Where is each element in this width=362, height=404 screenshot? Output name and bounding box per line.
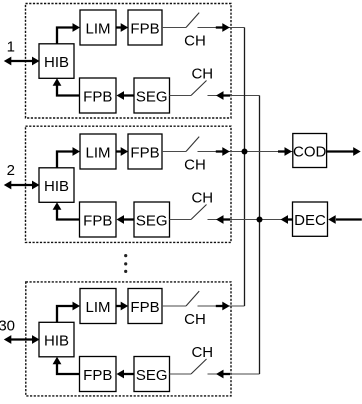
svg-text:HIB: HIB <box>44 178 69 195</box>
limiter LIM (unit 1) <box>80 10 116 45</box>
filter FPB transmit (unit 1) <box>128 10 162 45</box>
wire HIB to LIM <box>57 23 80 44</box>
arrow SEG to FPB receive <box>117 370 135 379</box>
output line COD to system <box>327 147 361 156</box>
svg-text:FPB: FPB <box>83 367 112 384</box>
bidirectional line port 1 to HIB <box>4 57 40 66</box>
switch CH receive (unit 2) <box>191 205 207 220</box>
svg-text:HIB: HIB <box>44 333 69 350</box>
wire SEG to switch CH (receive) <box>170 95 192 97</box>
filter FPB receive (unit 30) <box>80 357 117 392</box>
svg-text:FPB: FPB <box>130 21 159 38</box>
svg-text:SEG: SEG <box>136 367 168 384</box>
switch CH receive (unit 30) <box>191 359 207 374</box>
switch CH transmit (unit 2) <box>186 137 199 152</box>
switch CH transmit (unit 1) <box>186 13 199 28</box>
segment SEG (unit 1) <box>134 78 170 113</box>
wire SEG to switch CH (receive) <box>170 373 192 375</box>
wire switch to trunk (transmit out) <box>198 23 245 32</box>
segment SEG (unit 2) <box>134 202 170 237</box>
input line system to DEC <box>328 215 362 224</box>
svg-text:FPB: FPB <box>83 213 112 230</box>
hybrid HIB (unit 30) <box>39 322 74 357</box>
svg-text:HIB: HIB <box>44 54 69 71</box>
arrow LIM to FPB <box>116 23 128 32</box>
hybrid HIB (unit 2) <box>39 168 74 203</box>
svg-text:DEC: DEC <box>294 212 326 229</box>
svg-text:2: 2 <box>7 162 15 179</box>
svg-text:LIM: LIM <box>85 145 110 162</box>
svg-text:1: 1 <box>7 39 15 56</box>
channel unit 1 dashed enclosure <box>26 4 232 119</box>
receive trunk bus (from DEC) <box>259 96 261 375</box>
svg-text:CH: CH <box>184 32 206 49</box>
filter FPB receive (unit 1) <box>80 78 117 113</box>
filter FPB transmit (unit 30) <box>128 289 162 324</box>
svg-text:FPB: FPB <box>130 299 159 316</box>
svg-text:CH: CH <box>184 311 206 328</box>
svg-text:SEG: SEG <box>136 89 168 106</box>
arrow LIM to FPB <box>116 147 128 156</box>
svg-text:LIM: LIM <box>85 21 110 38</box>
svg-text:FPB: FPB <box>130 145 159 162</box>
wire FPB receive to HIB <box>53 78 80 95</box>
channel unit 2 dashed enclosure <box>26 126 232 242</box>
wire FPB receive to HIB <box>53 202 80 219</box>
wire receive trunk tap unit 1 <box>208 91 260 100</box>
wire receive trunk tap unit 30 <box>208 370 260 379</box>
svg-text:CH: CH <box>191 344 213 361</box>
junction transmit trunk / unit 2 <box>242 149 248 155</box>
svg-text:CH: CH <box>184 156 206 173</box>
switch CH transmit (unit 30) <box>186 291 199 306</box>
bidirectional line port 30 to HIB <box>4 335 40 344</box>
wire HIB to LIM <box>57 147 80 168</box>
transmit trunk bus (to COD) <box>244 28 246 307</box>
wire FPB to switch CH (transmit) <box>162 305 186 307</box>
svg-text:CH: CH <box>191 189 213 206</box>
segment SEG (unit 30) <box>134 357 170 392</box>
arrow SEG to FPB receive <box>117 215 135 224</box>
wire FPB to switch CH (transmit) <box>162 151 186 153</box>
vertical ellipsis (more units) <box>124 254 127 273</box>
channel unit 30 dashed enclosure <box>26 282 231 396</box>
svg-text:FPB: FPB <box>83 89 112 106</box>
wire switch to trunk (transmit out) <box>198 302 245 311</box>
filter FPB receive (unit 2) <box>80 202 117 237</box>
svg-text:30: 30 <box>0 318 15 335</box>
wire FPB to switch CH (transmit) <box>162 27 186 29</box>
svg-text:SEG: SEG <box>136 213 168 230</box>
wire SEG to switch CH (receive) <box>170 219 192 221</box>
switch CH receive (unit 1) <box>191 81 207 96</box>
junction receive trunk / unit 2 <box>257 217 263 223</box>
limiter LIM (unit 2) <box>80 134 116 169</box>
decoder DEC <box>293 202 328 236</box>
svg-text:LIM: LIM <box>85 299 110 316</box>
wire trunk to COD <box>245 147 293 156</box>
svg-text:COD: COD <box>293 144 327 161</box>
hybrid HIB (unit 1) <box>39 44 74 79</box>
wire DEC to trunk / unit 2 receive tap <box>208 215 295 224</box>
wire HIB to LIM <box>57 302 80 323</box>
wire switch to trunk (transmit out) <box>198 147 245 156</box>
bidirectional line port 2 to HIB <box>4 181 40 190</box>
arrow LIM to FPB <box>116 302 128 311</box>
limiter LIM (unit 30) <box>80 289 116 324</box>
svg-text:CH: CH <box>191 65 213 82</box>
filter FPB transmit (unit 2) <box>128 134 162 169</box>
wire FPB receive to HIB <box>53 357 80 374</box>
coder COD <box>293 134 327 168</box>
arrow SEG to FPB receive <box>117 91 135 100</box>
